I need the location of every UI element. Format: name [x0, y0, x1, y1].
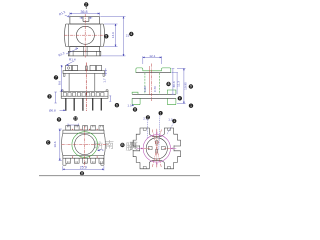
svg-text:1.3: 1.3: [168, 117, 173, 121]
svg-text:1: 1: [173, 119, 175, 123]
svg-text:11.3: 11.3: [177, 81, 181, 87]
svg-text:1: 1: [160, 111, 162, 115]
svg-text:5: 5: [105, 35, 107, 39]
svg-text:25.9: 25.9: [80, 166, 87, 170]
svg-text:19.90: 19.90: [183, 82, 187, 90]
svg-text:1: 1: [102, 148, 104, 152]
svg-text:8.6: 8.6: [58, 81, 62, 86]
svg-text:0.70: 0.70: [153, 86, 157, 92]
svg-text:8: 8: [81, 172, 83, 176]
svg-text:4: 4: [130, 32, 132, 36]
svg-text:南: 南: [105, 139, 114, 150]
svg-text:36.8: 36.8: [81, 10, 88, 14]
svg-text:2: 2: [147, 116, 149, 120]
svg-text:R1.4: R1.4: [69, 57, 76, 61]
svg-text:6: 6: [116, 103, 118, 107]
svg-text:9: 9: [190, 85, 192, 89]
svg-text:1.7: 1.7: [102, 78, 106, 83]
svg-text:B: B: [121, 143, 123, 147]
svg-text:9: 9: [58, 118, 60, 122]
svg-text:3: 3: [49, 95, 51, 99]
svg-text:13: 13: [74, 117, 78, 121]
svg-text:F: F: [179, 97, 181, 101]
svg-text:8: 8: [134, 108, 136, 112]
svg-text:7: 7: [55, 76, 57, 80]
svg-text:12.1: 12.1: [149, 54, 155, 58]
svg-text:16.6: 16.6: [53, 141, 57, 147]
svg-text:1: 1: [190, 104, 192, 108]
svg-text:14.6: 14.6: [111, 32, 115, 38]
svg-text:2: 2: [85, 3, 87, 7]
svg-text:1.1: 1.1: [127, 104, 132, 108]
svg-text:6.60: 6.60: [143, 86, 147, 92]
svg-text:真: 真: [129, 140, 138, 151]
svg-text:Ø0.8: Ø0.8: [49, 109, 56, 113]
svg-text:30.3: 30.3: [172, 81, 176, 87]
svg-text:8: 8: [168, 82, 170, 86]
svg-text:21: 21: [126, 33, 130, 37]
